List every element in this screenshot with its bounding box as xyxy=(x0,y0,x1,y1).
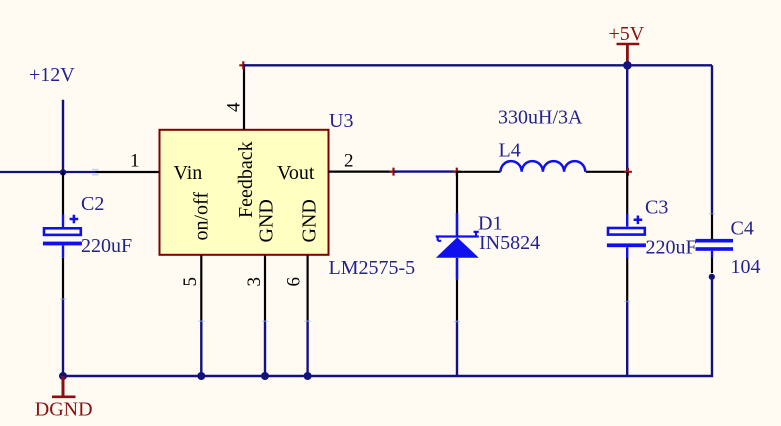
svg-text:330uH/3A: 330uH/3A xyxy=(498,107,583,129)
junction dot pin6/ground xyxy=(304,372,312,380)
wire: +5V node down to L4 output node xyxy=(626,65,628,172)
svg-text:5: 5 xyxy=(180,277,201,287)
power symbol DGND xyxy=(35,376,93,421)
svg-text:GND: GND xyxy=(256,199,278,242)
capacitor C2 bottom pin (black) xyxy=(62,258,64,299)
wire: pin6 to ground rail xyxy=(306,321,308,376)
svg-text:Vout: Vout xyxy=(277,162,315,184)
wire-end pale marker at C4 wire xyxy=(709,213,716,215)
pin number 5 (rotated) xyxy=(180,277,201,287)
inductor L4 right lead (black) xyxy=(586,171,628,173)
diode D1 (schottky) xyxy=(436,213,479,280)
pin 4 lead (black) from U3 top xyxy=(243,65,245,130)
svg-text:1: 1 xyxy=(130,151,140,172)
designator L4 xyxy=(499,140,521,162)
wire: C2 to ground rail xyxy=(62,299,64,376)
svg-text:Feedback: Feedback xyxy=(235,141,257,218)
svg-text:LM2575-5: LM2575-5 xyxy=(329,257,416,279)
pin name Feedback (rotated) xyxy=(235,141,257,218)
node junction below C4 xyxy=(709,274,715,280)
capacitor C2 body xyxy=(43,214,82,257)
svg-text:DGND: DGND xyxy=(35,399,93,421)
wire: D1 to ground rail xyxy=(456,321,458,376)
pin name Vout xyxy=(277,162,315,184)
svg-text:+12V: +12V xyxy=(29,64,75,86)
pin number 1 xyxy=(130,151,140,172)
svg-text:4: 4 xyxy=(224,102,245,112)
pin number 3 (rotated) xyxy=(244,277,265,287)
junction dot pin5/ground xyxy=(197,372,205,380)
inductor L4 left lead (black) xyxy=(457,171,501,173)
svg-text:+5V: +5V xyxy=(609,23,645,45)
svg-text:IN5824: IN5824 xyxy=(479,232,540,254)
svg-text:C3: C3 xyxy=(645,197,668,219)
pin 5 lead (black) xyxy=(200,256,202,321)
pin name Vin xyxy=(174,162,203,184)
diode D1 top pin (black) xyxy=(456,172,458,214)
wire: top feedback rail to +5V corner xyxy=(243,64,712,66)
pin number 6 (rotated) xyxy=(284,277,305,287)
pin 6 lead (black) xyxy=(307,256,309,321)
capacitor C3 top pin (black) xyxy=(626,172,628,214)
pin 2 lead (black) from U3 Vout xyxy=(329,171,393,173)
value IN5824 xyxy=(479,232,540,254)
inductor L4 coil xyxy=(501,161,586,172)
wire: C3 to ground rail xyxy=(626,301,628,376)
node junction on top rail at +5V xyxy=(623,61,632,70)
wire-end pale marker at C2 wire xyxy=(60,298,67,300)
label C3 xyxy=(645,197,668,219)
pin number 4 (rotated) xyxy=(224,102,245,112)
value 220uF (C2) xyxy=(81,235,132,257)
net label +12V xyxy=(29,64,75,86)
designator U3 xyxy=(329,110,353,132)
svg-text:2: 2 xyxy=(344,151,354,172)
capacitor C4 body xyxy=(696,239,734,258)
wire: pin5 to ground rail xyxy=(200,321,202,376)
wire: +12V vertical drop xyxy=(62,100,64,173)
wire-end cross at Vout xyxy=(390,168,398,176)
svg-text:220uF: 220uF xyxy=(81,235,132,257)
label C4 xyxy=(731,218,754,240)
junction dot at C2/ground xyxy=(59,372,67,380)
wire-end pale marker at pin5 wire xyxy=(198,320,205,322)
svg-text:C4: C4 xyxy=(731,218,754,240)
wire-end cross at L4 output node xyxy=(624,168,632,176)
wire-end cross at feedback/top-rail xyxy=(239,61,247,69)
pin name GND (pin 6, rotated) xyxy=(299,199,321,242)
capacitor C3 body xyxy=(607,214,646,258)
pin 3 lead (black) xyxy=(264,256,266,321)
wire: C4 down to ground rail corner xyxy=(63,278,712,377)
svg-text:on/off: on/off xyxy=(191,192,213,241)
part number LM2575-5 xyxy=(329,257,416,279)
svg-text:6: 6 xyxy=(284,277,305,287)
svg-text:L4: L4 xyxy=(499,140,521,162)
wire-end pale marker at pin3 wire xyxy=(262,320,269,322)
wire: pin3 to ground rail xyxy=(264,321,266,376)
pin 1 lead (black) into U1 Vin xyxy=(96,171,160,173)
pin name on/off (rotated) xyxy=(191,192,213,241)
pin number 2 xyxy=(344,151,354,172)
wire-end pale marker at pin6 wire xyxy=(304,320,311,322)
power symbol +5V xyxy=(609,23,645,63)
junction dot pin3/ground xyxy=(261,372,269,380)
wire-end pale marker at C3 wire xyxy=(624,301,631,303)
value 330uH/3A xyxy=(498,107,583,129)
svg-text:Vin: Vin xyxy=(174,162,203,184)
svg-text:C2: C2 xyxy=(81,193,104,215)
svg-text:U3: U3 xyxy=(329,110,353,132)
svg-text:220uF: 220uF xyxy=(646,237,697,259)
svg-text:3: 3 xyxy=(244,277,265,287)
wire-end pale marker at D1 wire xyxy=(454,321,461,323)
svg-text:GND: GND xyxy=(299,199,321,242)
value 220uF (C3) xyxy=(646,237,697,259)
svg-text:104: 104 xyxy=(731,256,761,278)
designator D1 xyxy=(478,213,502,235)
wire-end cross at D1 node xyxy=(453,168,461,176)
capacitor C3 bottom pin (black) xyxy=(626,258,628,301)
pin name GND (pin 3, rotated) xyxy=(256,199,278,242)
capacitor C2 top pin (black) xyxy=(62,172,64,214)
label C2 xyxy=(81,193,104,215)
capacitor C4 top pin (black) xyxy=(711,212,713,239)
wire: left input horizontal to node A xyxy=(0,171,96,173)
chip U3 body xyxy=(160,130,329,255)
capacitor C4 bottom pin (black) xyxy=(711,257,713,273)
wire-end pale marker at Vin wire xyxy=(92,170,99,175)
value 104 xyxy=(731,256,761,278)
wire: Vout to D1 node xyxy=(394,170,457,172)
diode D1 bottom pin (black) xyxy=(456,280,458,321)
node A junction (+12V / C2 / Vin) xyxy=(60,169,66,175)
wire: top rail right corner down to C4 xyxy=(711,65,713,211)
